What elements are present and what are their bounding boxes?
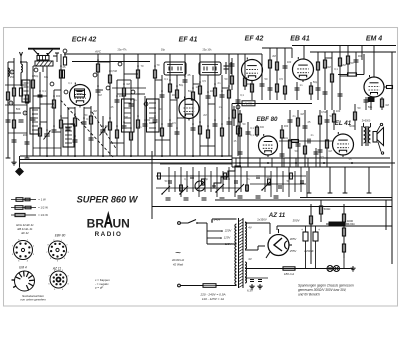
wire column x=54 with components: [52, 90, 57, 156]
socket EM4 side-contact: [12, 271, 35, 291]
tube V4 EB41: [293, 59, 314, 80]
svg-text:1M: 1M: [266, 176, 269, 179]
wire IF column x=170: [168, 54, 173, 156]
wire column: [303, 110, 308, 167]
wire column x=68 with components: [66, 108, 71, 156]
wire EM4 frame: [361, 46, 363, 61]
circled ref 4: [9, 101, 13, 105]
svg-text:50p: 50p: [179, 83, 184, 87]
wire column: [268, 48, 273, 100]
svg-text:100: 100: [336, 109, 341, 113]
mains frequency note: [172, 248, 185, 267]
svg-text:300: 300: [260, 126, 265, 129]
wire: [231, 104, 233, 168]
wire IF column x=200: [198, 54, 201, 156]
wire B+ bus upper: [215, 199, 392, 201]
svg-text:500Ω: 500Ω: [324, 207, 331, 211]
svg-text:ECH 42: ECH 42: [72, 37, 97, 44]
svg-text:25p 10k: 25p 10k: [203, 49, 213, 52]
wire screen line: [72, 61, 150, 63]
wire column x=138 with components: [136, 54, 139, 156]
svg-text:200: 200: [23, 133, 28, 137]
band switch components: [158, 173, 304, 191]
svg-text:20Ω: 20Ω: [349, 222, 354, 226]
svg-text:BR: BR: [87, 217, 105, 231]
svg-text:25p: 25p: [204, 178, 209, 181]
socket noval EBF80: [49, 241, 67, 259]
svg-text:1M: 1M: [98, 94, 101, 97]
svg-text:Spannungen gegen Chassis gemes: Spannungen gegen Chassis gemessen: [298, 284, 354, 288]
wire column x=117 with components: [115, 80, 120, 156]
wire bus to earth: [19, 156, 21, 163]
wire column x=124 with components: [122, 54, 127, 156]
wire IF column x=155: [153, 54, 158, 156]
svg-text:100: 100: [119, 94, 124, 98]
resistor EM4 right: [384, 86, 393, 89]
circled ref 3: [23, 111, 27, 115]
wire left column 3: [21, 62, 27, 158]
band switch levers: [161, 182, 270, 195]
box label AL800: [242, 101, 255, 106]
svg-text:= 1/4 W: = 1/4 W: [38, 213, 48, 217]
wire column x=40 with components: [38, 72, 43, 156]
wire column: [296, 110, 301, 167]
socket caption group 1: [16, 223, 34, 235]
svg-text:2M: 2M: [342, 63, 346, 67]
coil input: [21, 64, 22, 72]
ground at lamp line: [350, 266, 356, 271]
tube V8 AZ11 rectifier: [268, 235, 289, 256]
svg-text:300: 300: [56, 94, 61, 98]
svg-text:0,5: 0,5: [320, 155, 324, 159]
wire column: [280, 125, 285, 167]
wire IF column x=229: [227, 54, 232, 156]
tube V1 ECH42: [70, 85, 91, 106]
svg-text:und 6V Bereich: und 6V Bereich: [298, 293, 320, 297]
antenna input terminal with arrow: [20, 52, 23, 63]
input coil ladder: [22, 80, 30, 102]
wire column x=131 with components: [129, 80, 134, 156]
svg-text:EBF 80: EBF 80: [257, 116, 279, 123]
labels above avc: [118, 49, 213, 52]
loudspeaker LS: [373, 128, 384, 146]
svg-text:10n: 10n: [284, 136, 289, 140]
tube V3 EF42: [242, 60, 263, 81]
wire EM4 below: [364, 97, 369, 110]
svg-text:300: 300: [358, 54, 363, 58]
legend symbols: [95, 278, 110, 290]
circled ref 2: [10, 70, 14, 74]
output transformer T2: [362, 123, 371, 146]
svg-text:300: 300: [284, 124, 289, 128]
svg-text:30p: 30p: [161, 49, 166, 52]
svg-text:EBF 80: EBF 80: [55, 234, 66, 238]
svg-text:50p: 50p: [34, 74, 39, 78]
wire drop x=330: [328, 167, 333, 193]
oscillator coil assembly: [30, 108, 40, 134]
logo BRAUN: [87, 215, 130, 231]
svg-text:AVC: AVC: [94, 50, 102, 54]
wire right edge pair: [386, 198, 392, 265]
svg-text:0,5M: 0,5M: [111, 69, 117, 73]
wire AZ11 cathode to filter: [277, 226, 392, 230]
circled ref: [144, 102, 148, 106]
wire column x=47 with components: [44, 66, 51, 156]
wire column: [291, 48, 293, 58]
wire AVC line: [64, 53, 262, 55]
svg-text:50p: 50p: [313, 80, 318, 84]
svg-text:EM 4: EM 4: [366, 36, 382, 43]
wire drop x=309: [307, 167, 312, 193]
legend resistor 0.25W: [11, 213, 48, 217]
svg-text:0,1: 0,1: [68, 82, 72, 85]
svg-text:40-60 Hz: 40-60 Hz: [172, 258, 185, 262]
wire links EM4: [325, 52, 362, 76]
resistor to dial lamps: [319, 200, 322, 222]
tube V6 EBF80: [259, 136, 278, 155]
speaker terminals: [377, 123, 384, 154]
wires band switch horizontals: [156, 164, 306, 188]
capacitor C: [19, 119, 24, 121]
tube V2 EF41: [179, 99, 199, 119]
wire right lower bus2: [232, 166, 390, 168]
resistor input R: [6, 92, 9, 100]
mains switch S1: [178, 220, 207, 225]
svg-text:1M: 1M: [300, 112, 304, 116]
oscillator coil assembly 2: [63, 124, 74, 147]
svg-text:350V: 350V: [292, 219, 300, 223]
bus junction dots: [46, 155, 223, 157]
heater circuit capacitors: [245, 278, 268, 289]
wire column: [283, 48, 288, 100]
wire link: [262, 47, 292, 49]
svg-text:50p: 50p: [188, 90, 193, 93]
circled ref: [118, 62, 122, 66]
filter choke/resistor vertical: [309, 204, 312, 264]
svg-text:0,5: 0,5: [202, 79, 206, 83]
svg-text:300: 300: [172, 93, 177, 97]
svg-text:0,5: 0,5: [172, 122, 176, 125]
socket AZ11 octal: [50, 271, 67, 288]
svg-text:2M: 2M: [203, 114, 206, 117]
legend resistor 1W: [11, 198, 46, 202]
circled ref: [34, 68, 38, 72]
antenna coupling coil L1: [35, 56, 53, 67]
wire top right line EB41-EM4: [292, 45, 396, 47]
svg-text:EM 4: EM 4: [19, 266, 27, 270]
svg-text:1M: 1M: [385, 103, 389, 107]
svg-text:von unten gesehen: von unten gesehen: [20, 298, 46, 302]
wire column: [353, 104, 356, 130]
wire mid bus: [300, 197, 392, 199]
wire drop x=345: [343, 167, 348, 193]
svg-text:220V: 220V: [224, 229, 233, 233]
capacitor C: [25, 141, 30, 143]
circled ref: [106, 86, 110, 90]
ground left block: [13, 160, 15, 162]
svg-text:EF 42: EF 42: [21, 231, 29, 235]
wire column: [330, 52, 333, 110]
wire IF column x=162: [160, 75, 165, 156]
svg-text:255V: 255V: [289, 249, 298, 253]
wire EM4 anode drop: [373, 46, 375, 78]
svg-text:300: 300: [124, 116, 129, 119]
svg-text:0,5: 0,5: [279, 77, 283, 81]
svg-text:305V: 305V: [290, 237, 298, 241]
wire column: [325, 110, 330, 167]
wire column: [238, 122, 243, 167]
svg-text:Z=5000: Z=5000: [362, 120, 371, 123]
wire links IF section: [155, 80, 229, 146]
wire column x=98 with components: [96, 54, 101, 156]
wire right lower bus: [232, 157, 390, 159]
wire column: [318, 110, 323, 167]
wire links mid rows: [112, 88, 146, 94]
wire column x=61 with components: [59, 54, 62, 156]
antenna rod: [28, 49, 60, 56]
svg-text:1M: 1M: [328, 150, 331, 153]
svg-text:0,1: 0,1: [240, 93, 244, 97]
wire: [20, 62, 22, 64]
wire IF column x=208: [206, 75, 211, 156]
capacitor trimmer pair: [224, 62, 232, 74]
svg-text:100: 100: [210, 89, 215, 93]
svg-text:SUPER 860 W: SUPER 860 W: [77, 195, 139, 205]
wire chassis bus 1: [20, 155, 232, 157]
wire link: [5, 84, 27, 86]
socket note: [20, 294, 46, 302]
resistor R: [25, 95, 28, 103]
mains transformer T1: [235, 218, 247, 288]
circled ref: [93, 73, 97, 77]
svg-text:300: 300: [247, 82, 252, 86]
tube V5 EM4 magic eye: [364, 77, 384, 97]
wire drop x=369: [367, 167, 372, 193]
wire column x=91 with components: [89, 106, 94, 156]
IF transformer can 2: [199, 62, 221, 75]
staircase switch wiring: [214, 166, 241, 188]
wire column: [255, 125, 258, 137]
AVC series resistor: [60, 49, 67, 78]
svg-text:1M: 1M: [126, 82, 130, 86]
oscillator coil box B: [147, 99, 160, 132]
capacitor input C: [6, 119, 11, 121]
wire column trimmer: [230, 58, 235, 90]
svg-text:5000: 5000: [349, 124, 355, 128]
circled ref: [64, 90, 68, 94]
wire link: [5, 104, 27, 106]
wire chassis bus 2: [20, 159, 232, 161]
svg-text:0,1: 0,1: [334, 67, 338, 71]
svg-text:300: 300: [226, 178, 231, 181]
wire column EL41 left: [314, 148, 319, 167]
svg-text:100: 100: [287, 60, 292, 64]
resistor R: [12, 88, 15, 96]
oscillator coil box A: [122, 99, 135, 132]
capacitor C: [12, 139, 17, 141]
svg-text:0,1: 0,1: [184, 178, 188, 181]
svg-text:240V: 240V: [213, 218, 222, 222]
svg-text:2x350V: 2x350V: [257, 218, 267, 222]
electrolytic capacitor block: [301, 226, 320, 269]
svg-text:4V: 4V: [248, 226, 252, 230]
phono jack circle: [195, 181, 205, 191]
resistor R: [12, 120, 15, 128]
wires band switch verticals: [169, 167, 307, 197]
svg-text:RADIO: RADIO: [95, 231, 123, 238]
svg-text:EF 41: EF 41: [179, 37, 198, 44]
wire column: [275, 48, 278, 100]
svg-text:2M: 2M: [272, 54, 276, 58]
wire antenna to band filter: [42, 66, 44, 72]
svg-text:30p: 30p: [44, 76, 49, 79]
svg-text:= 1 W: = 1 W: [38, 198, 46, 202]
wire coupling EBF80 to EL41: [279, 139, 333, 144]
wire IF column x=215: [213, 54, 218, 156]
svg-text:30p: 30p: [105, 124, 110, 128]
svg-text:1M: 1M: [327, 65, 331, 69]
svg-text:110 - 125V = 1A: 110 - 125V = 1A: [202, 297, 224, 301]
wire column: [295, 82, 300, 100]
svg-text:EB 41: EB 41: [290, 36, 310, 43]
svg-text:2M: 2M: [93, 109, 97, 113]
dial lamps: [327, 266, 340, 272]
wire column: [346, 46, 349, 77]
svg-text:125V: 125V: [224, 236, 232, 240]
wire top right line 2: [310, 51, 396, 53]
screen resistors EBF80: [232, 105, 241, 130]
resistor below EF42: [250, 81, 253, 101]
resistor EM4 left: [338, 54, 364, 76]
tuning gang dashed link: [61, 100, 114, 157]
svg-text:0,5M: 0,5M: [321, 110, 327, 114]
svg-text:6,3V: 6,3V: [247, 289, 253, 293]
circled ref: [131, 90, 135, 94]
wire IF column x=193: [191, 75, 196, 156]
note voltages measured: [298, 284, 354, 297]
wire link: [8, 112, 21, 114]
wire right bottom: [343, 258, 345, 269]
circled ref: [50, 82, 54, 86]
svg-text:20p 47k: 20p 47k: [118, 49, 128, 52]
bus feet EBF80 section: [236, 158, 308, 167]
wire EM4 right: [391, 52, 393, 264]
svg-text:+: +: [301, 228, 303, 232]
foot: [6, 157, 11, 159]
wire column: [243, 54, 246, 90]
svg-text:+: +: [318, 228, 320, 232]
socket rimlock 8-pin: [14, 241, 33, 260]
svg-text:250: 250: [10, 75, 15, 79]
tube V7 EL41: [333, 134, 354, 155]
svg-text:= 1/2 W: = 1/2 W: [38, 206, 48, 210]
EM4 cathode blob: [368, 98, 374, 111]
wire column: [309, 82, 312, 100]
svg-text:2x50μF: 2x50μF: [304, 249, 314, 253]
svg-text:0,1: 0,1: [42, 89, 46, 93]
trimmer capacitor at antenna: [53, 53, 59, 62]
wire column x=145 with components: [143, 96, 148, 156]
resistor 180mA: [283, 267, 295, 276]
svg-text:EF 42: EF 42: [245, 36, 264, 43]
svg-text:gemessen 300Ω/V 300V bzw 30V,: gemessen 300Ω/V 300V bzw 30V,: [298, 288, 347, 292]
earth terminal diamond: [15, 163, 24, 176]
svg-text:UN: UN: [113, 217, 130, 231]
wire column x=84 with components: [82, 107, 87, 156]
wire column x=110 with components: [108, 54, 111, 156]
voltage selector taps: [207, 220, 237, 244]
svg-text:0,1: 0,1: [250, 126, 254, 130]
svg-text:0,1: 0,1: [164, 77, 168, 81]
wire EBF80 box top: [232, 103, 312, 105]
IF transformer can 1: [164, 62, 186, 75]
wire column: [332, 110, 335, 130]
wire left column 1: [8, 62, 14, 158]
tuning gang dashed link 2: [92, 112, 117, 150]
svg-text:AZ 11: AZ 11: [268, 212, 286, 219]
wire column: [323, 52, 328, 110]
potentiometer hum control: [326, 222, 349, 226]
coil input L2: [8, 68, 9, 76]
wire column x=33 with components: [31, 66, 36, 156]
wire left column 2: [13, 58, 15, 160]
wire column: [354, 52, 359, 76]
wire HT secondary to AZ11: [245, 223, 270, 250]
resistor chain right: [342, 204, 345, 258]
svg-text:p = pF: p = pF: [95, 286, 104, 290]
resistor R: [19, 88, 22, 96]
wire tap to transformer: [211, 219, 213, 221]
wire links ECH42 section: [33, 62, 145, 148]
wire EB41 anode drop: [303, 46, 305, 60]
wire links ECH42 extra: [33, 96, 68, 132]
wire IF column x=177: [175, 75, 180, 156]
capacitors under switch: [166, 196, 279, 200]
svg-text:0,1: 0,1: [250, 134, 254, 137]
svg-text:EB 41 EL 41: EB 41 EL 41: [17, 227, 33, 231]
svg-text:500: 500: [16, 107, 21, 111]
wire lamp line: [245, 268, 350, 270]
wire chassis bus 3: [20, 162, 395, 164]
wire IF column x=222: [220, 75, 225, 156]
svg-text:AL 800: AL 800: [245, 103, 253, 106]
wire column: [260, 54, 265, 100]
bus junction dots 2: [239, 162, 353, 164]
svg-text:42 Watt: 42 Watt: [173, 263, 183, 267]
wire column: [288, 110, 293, 167]
svg-text:50p: 50p: [368, 105, 373, 109]
foot: [25, 157, 30, 159]
svg-text:4V: 4V: [248, 257, 252, 261]
wire column x=75 with components: [73, 107, 78, 156]
wire link: [8, 132, 27, 134]
wire switch block left edge: [151, 151, 153, 219]
wire column: [338, 46, 343, 111]
wire column: [236, 54, 241, 156]
wire column: [246, 122, 251, 167]
svg-text:ECH 42 EF 41: ECH 42 EF 41: [16, 223, 34, 227]
mains lower lead with fuse: [178, 284, 237, 288]
wire column: [316, 52, 321, 100]
svg-text:0,1: 0,1: [86, 117, 90, 121]
wire EM4 below 2: [380, 97, 383, 110]
svg-text:180 mA: 180 mA: [284, 272, 294, 276]
wire column x=103 with components: [100, 116, 107, 156]
legend resistor 0.5W: [11, 206, 48, 210]
wire B+ bus: [152, 206, 392, 208]
wire IF column x=185: [183, 54, 188, 156]
svg-text:100: 100: [158, 108, 163, 111]
